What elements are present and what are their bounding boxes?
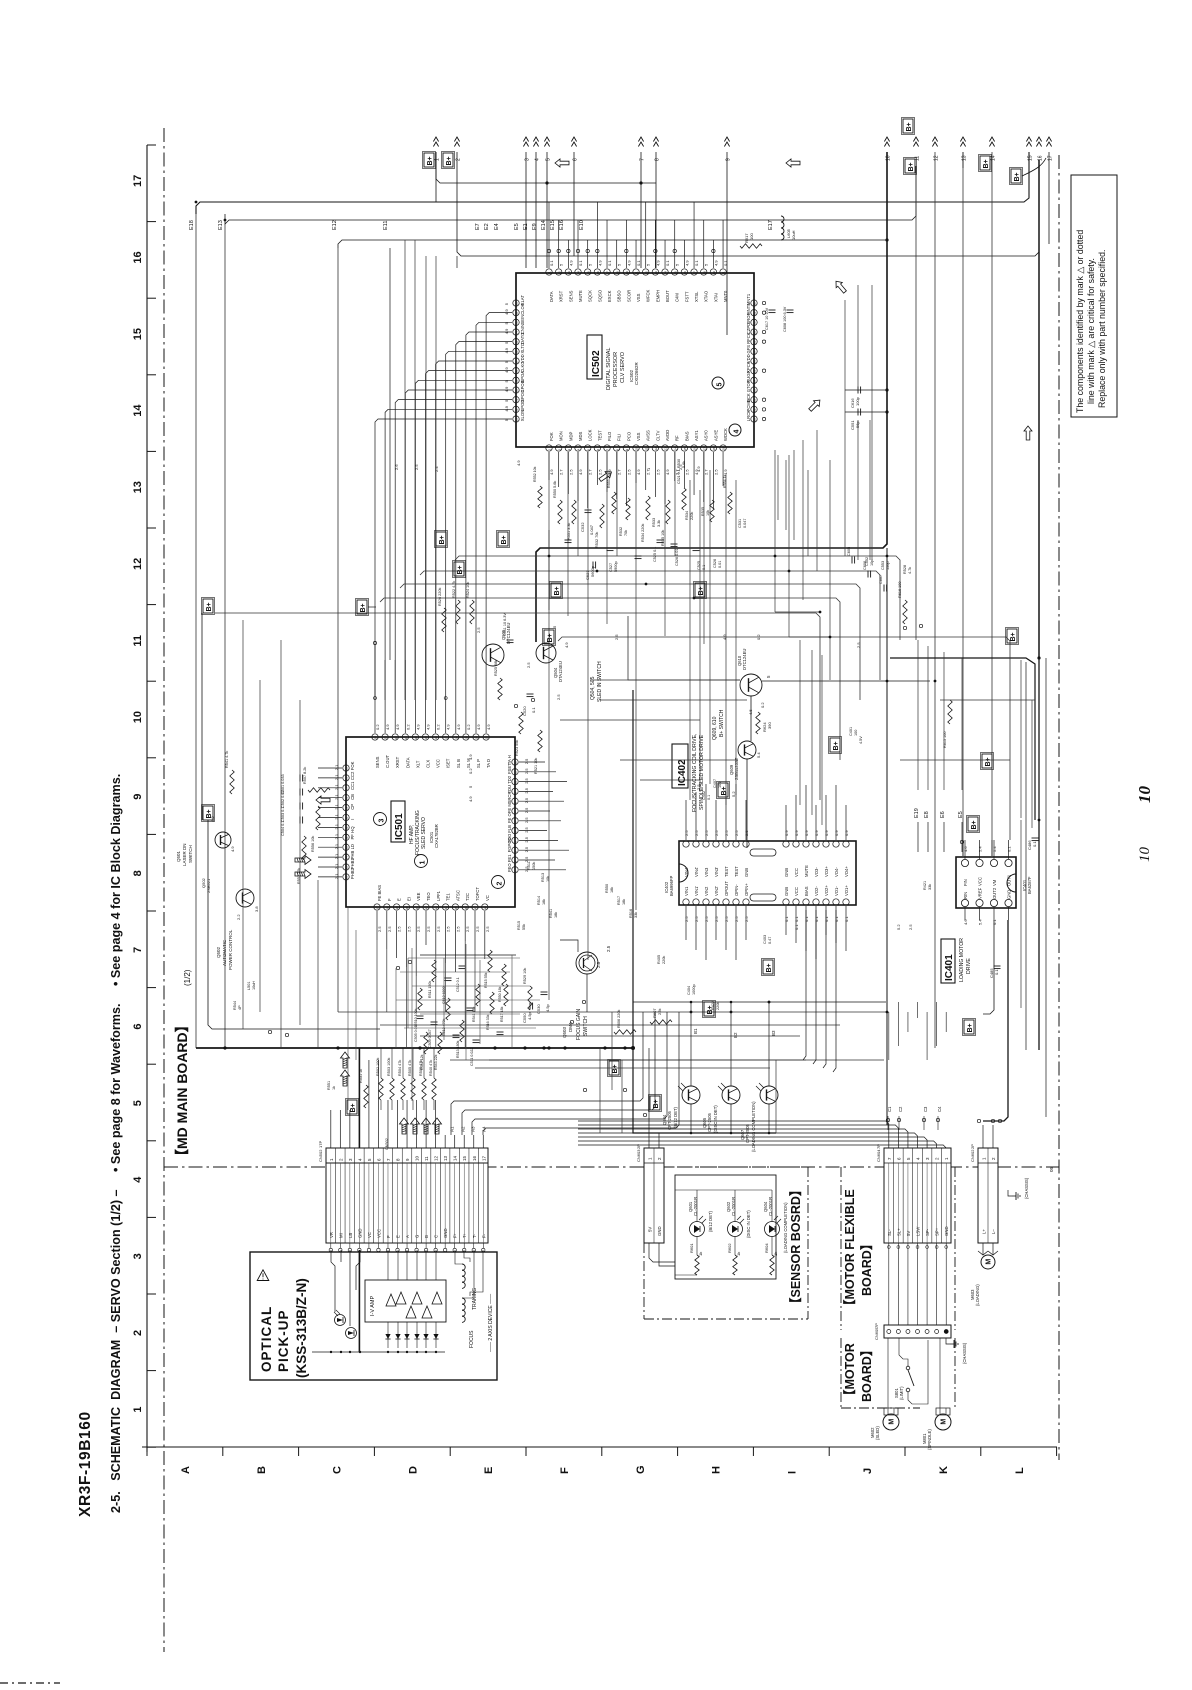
svg-text:16: 16 <box>596 271 600 275</box>
connector chevron 12 <box>932 137 937 142</box>
svg-text:36: 36 <box>345 876 349 880</box>
svg-text:0.047: 0.047 <box>743 518 747 528</box>
svg-text:T2C: T2C <box>465 893 470 901</box>
CN502 channel wires <box>330 1163 332 1243</box>
diode row <box>387 1322 389 1348</box>
svg-text:FE BIAS: FE BIAS <box>377 885 382 901</box>
capacitor extras focus <box>467 1007 474 1009</box>
wire pickup gnd bus <box>312 1351 445 1353</box>
svg-text:R516 33k: R516 33k <box>486 1014 490 1030</box>
svg-text:12: 12 <box>132 558 144 570</box>
svg-text:—— 2 AXIS DEVICE ——: —— 2 AXIS DEVICE —— <box>488 1294 494 1352</box>
transistor Q609 <box>738 741 756 759</box>
svg-text:ASY0: ASY0 <box>704 430 709 441</box>
svg-text:4.9: 4.9 <box>395 724 400 730</box>
bottom corner crop mark <box>0 1682 60 1684</box>
resistor R617 <box>740 244 762 248</box>
svg-text:0.1: 0.1 <box>707 795 711 800</box>
svg-text:23: 23 <box>753 389 757 393</box>
extra B plus markers <box>650 1096 660 1110</box>
wire E12 vertical <box>337 248 339 1012</box>
optical pickup box <box>250 1252 497 1380</box>
svg-text:R533: R533 <box>652 518 656 527</box>
svg-text:(DISC IN DET): (DISC IN DET) <box>746 1210 751 1238</box>
svg-text:14: 14 <box>453 1155 458 1161</box>
svg-text:2.1: 2.1 <box>334 823 339 829</box>
svg-text:E14: E14 <box>541 220 547 230</box>
svg-text:TE1: TE1 <box>446 893 451 901</box>
wire bus y183 <box>436 152 656 183</box>
svg-text:10: 10 <box>1137 847 1153 863</box>
svg-text:BOUT: BOUT <box>665 290 670 302</box>
svg-text:CPT-2505: CPT-2505 <box>667 1110 672 1130</box>
svg-text:2.5: 2.5 <box>524 807 529 813</box>
svg-text:38: 38 <box>385 906 389 910</box>
svg-text:PROCESSOR: PROCESSOR <box>613 352 619 387</box>
svg-text:SPOD: SPOD <box>520 400 525 412</box>
capacitor C551 <box>857 409 859 416</box>
svg-text:2.5: 2.5 <box>734 830 739 836</box>
svg-text:11: 11 <box>644 447 648 450</box>
svg-text:B+: B+ <box>457 565 464 574</box>
svg-text:B+: B+ <box>439 535 446 544</box>
LED Q601 <box>690 1222 705 1237</box>
wire chev13 vertical <box>962 152 964 856</box>
svg-text:SQCK: SQCK <box>588 290 593 302</box>
wire under IC501 to CN <box>355 930 357 1060</box>
svg-text:R616 100: R616 100 <box>898 582 902 598</box>
svg-text:2.5: 2.5 <box>455 926 460 932</box>
svg-text:(1/2): (1/2) <box>183 969 192 986</box>
svg-text:BA6287F: BA6287F <box>1027 876 1032 894</box>
svg-text:E11: E11 <box>383 221 389 230</box>
svg-text:R532 70k: R532 70k <box>595 532 599 548</box>
svg-text:27: 27 <box>753 350 757 354</box>
svg-text:VIN2': VIN2' <box>714 886 719 896</box>
svg-text:VREF: VREF <box>978 887 983 899</box>
svg-text:MON: MON <box>559 431 564 441</box>
svg-text:4.9: 4.9 <box>468 796 473 802</box>
svg-text:31: 31 <box>753 312 757 316</box>
svg-text:5: 5 <box>132 1100 144 1106</box>
svg-text:5: 5 <box>546 158 552 161</box>
resistor R523 <box>519 712 523 734</box>
svg-text:2.7: 2.7 <box>704 469 709 475</box>
svg-text:5.2: 5.2 <box>896 924 901 930</box>
svg-text:0.2: 0.2 <box>760 702 765 708</box>
svg-text:EI: EI <box>406 897 411 901</box>
svg-text:B+: B+ <box>983 159 990 168</box>
resistor R602 <box>733 1255 737 1275</box>
svg-text:5: 5 <box>717 383 724 387</box>
svg-text:0.1: 0.1 <box>723 260 728 266</box>
wire chev3 vertical <box>525 152 527 268</box>
svg-text:R513: R513 <box>541 873 545 882</box>
svg-text:PF H: PF H <box>350 830 355 840</box>
svg-text:Q609, 610: Q609, 610 <box>712 716 718 740</box>
B+ mid <box>357 600 367 614</box>
svg-text:2.5: 2.5 <box>626 469 631 475</box>
svg-text:1k: 1k <box>698 1252 703 1256</box>
svg-text:B+: B+ <box>554 586 561 595</box>
wire iv amp feeds <box>387 1250 389 1280</box>
wire left B rail 2 <box>368 606 376 608</box>
svg-text:(B/12 DET): (B/12 DET) <box>708 1210 713 1232</box>
capacitor C550 <box>529 1003 531 1010</box>
svg-text:R517: R517 <box>617 896 621 905</box>
svg-text:F: F <box>386 1235 391 1238</box>
resistor R529 <box>528 986 532 1010</box>
motor flex board outline <box>840 1167 842 1330</box>
svg-text:IC502: IC502 <box>591 350 602 377</box>
transistor Q610 B+ switch <box>740 674 762 696</box>
svg-text:2.5: 2.5 <box>568 469 573 475</box>
svg-text:2.1: 2.1 <box>334 873 339 879</box>
svg-text:39: 39 <box>395 906 399 910</box>
transistor Q504 <box>536 643 556 663</box>
connector CN602 <box>978 1148 998 1243</box>
svg-text:C511 10 6.3V: C511 10 6.3V <box>503 613 507 636</box>
wire cn604 down to cn605 <box>888 1243 890 1325</box>
svg-text:C531: C531 <box>738 519 742 528</box>
svg-text:2.5: 2.5 <box>475 926 480 932</box>
svg-text:C509 0.047: C509 0.047 <box>428 1029 432 1048</box>
svg-text:Q502: Q502 <box>216 946 221 958</box>
svg-text:R422: R422 <box>711 1001 715 1010</box>
svg-text:2.4: 2.4 <box>434 466 439 472</box>
svg-text:B+: B+ <box>985 757 992 766</box>
svg-text:B+: B+ <box>908 162 915 171</box>
svg-text:C4: C4 <box>937 1106 942 1112</box>
svg-text:B: B <box>424 1235 429 1238</box>
IC402 bottom stubs <box>685 906 687 940</box>
svg-text:0.9: 0.9 <box>804 830 809 836</box>
svg-text:56: 56 <box>515 350 519 354</box>
svg-text:4.7k: 4.7k <box>908 567 912 574</box>
svg-text:XROF: XROF <box>746 312 751 324</box>
svg-text:63: 63 <box>515 418 519 422</box>
svg-text:DTA124EU: DTA124EU <box>558 661 563 682</box>
svg-text:CXD2662R: CXD2662R <box>634 361 639 385</box>
svg-text:0.1: 0.1 <box>794 924 799 930</box>
op-amp triangles <box>386 1294 396 1306</box>
chassis gnd cn605 <box>946 1338 950 1344</box>
wire pickup left pins <box>331 1250 335 1312</box>
svg-text:VO2+: VO2+ <box>824 885 829 896</box>
svg-text:GND: GND <box>657 1226 662 1236</box>
motor M801 spindle <box>935 1414 951 1430</box>
svg-text:VM: VM <box>992 879 997 886</box>
wire horizontal jogs mid right <box>775 611 820 613</box>
svg-text:11: 11 <box>424 1156 429 1161</box>
B+ q609 <box>718 783 728 797</box>
capacitor C486 <box>1032 837 1039 839</box>
junction dots sprinkle <box>548 555 551 558</box>
svg-text:E18: E18 <box>189 220 195 230</box>
svg-text:G: G <box>635 1465 647 1474</box>
svg-text:16: 16 <box>454 736 458 740</box>
svg-text:E5: E5 <box>958 811 964 818</box>
transistor Q604 photo <box>682 1086 700 1104</box>
IC502 bottom pin stubs <box>548 452 550 480</box>
svg-text:R534 220k: R534 220k <box>641 524 645 542</box>
wire ic501 top to bus <box>404 240 406 700</box>
wire laser B+ rail <box>208 820 380 1029</box>
svg-text:2P: 2P <box>970 1144 975 1149</box>
svg-text:C527: C527 <box>609 563 613 572</box>
svg-text:VIN3: VIN3 <box>704 867 709 877</box>
svg-text:AVDD: AVDD <box>665 430 670 441</box>
svg-text:18: 18 <box>615 271 619 275</box>
hatched arrow pair upper <box>341 1052 350 1068</box>
svg-text:OPOUT: OPOUT <box>724 881 729 896</box>
svg-text:2.5: 2.5 <box>606 945 611 952</box>
svg-text:C4M: C4M <box>675 293 680 302</box>
svg-text:32: 32 <box>753 302 757 306</box>
photodiode D2 <box>346 1328 357 1339</box>
wire band y613 <box>215 613 820 800</box>
open circles testpoints <box>582 1000 585 1003</box>
svg-text:33k: 33k <box>928 884 932 890</box>
wire IC501 bottom extensions <box>376 940 378 1048</box>
svg-text:0.1: 0.1 <box>794 916 799 922</box>
wire CN502 gnd thick <box>358 1048 360 1148</box>
svg-text:C401: C401 <box>849 727 853 736</box>
svg-text:17: 17 <box>1048 155 1054 161</box>
svg-text:OPIN+: OPIN+ <box>744 883 749 896</box>
wire cn604 c-points <box>887 1116 889 1130</box>
svg-text:2.5: 2.5 <box>908 924 913 930</box>
svg-text:(LIMIT): (LIMIT) <box>899 1386 904 1400</box>
svg-text:2.1: 2.1 <box>334 764 339 770</box>
svg-text:VO1-: VO1- <box>834 886 839 896</box>
svg-text:C1: C1 <box>887 1106 892 1112</box>
svg-text:B+: B+ <box>612 1064 619 1073</box>
svg-text:VO2-: VO2- <box>814 886 819 896</box>
IC402 label box <box>672 744 688 788</box>
svg-text:R551: R551 <box>327 1081 331 1090</box>
IC502 marker 4 <box>729 424 741 436</box>
svg-text:0.1: 0.1 <box>694 260 699 266</box>
svg-text:LSW: LSW <box>916 1226 921 1236</box>
capacitor cluster left of IC501 <box>299 775 301 782</box>
svg-text:R606 220k: R606 220k <box>617 1010 621 1028</box>
capacitor C485 <box>994 965 1001 967</box>
svg-text:E8: E8 <box>924 811 930 818</box>
svg-text:IC402: IC402 <box>677 759 688 786</box>
svg-text:11: 11 <box>132 635 144 647</box>
svg-text:R511 150k: R511 150k <box>428 981 432 998</box>
svg-text:2.5: 2.5 <box>524 777 529 783</box>
svg-text:28: 28 <box>753 341 757 345</box>
svg-text:25: 25 <box>753 370 757 374</box>
svg-text:220k: 220k <box>662 956 666 964</box>
svg-text:VIN4': VIN4' <box>694 867 699 877</box>
svg-text:2SB1123ST: 2SB1123ST <box>734 757 739 780</box>
svg-text:RF: RF <box>675 435 680 441</box>
wire q610 collector <box>762 680 930 682</box>
svg-text:59: 59 <box>515 379 519 383</box>
svg-text:B+: B+ <box>1010 632 1017 641</box>
svg-text:4.9: 4.9 <box>516 460 521 466</box>
svg-text:5900p: 5900p <box>614 561 618 572</box>
svg-text:2.5: 2.5 <box>556 694 561 700</box>
svg-text:4.9: 4.9 <box>426 724 431 730</box>
svg-text:2.5: 2.5 <box>684 469 689 475</box>
svg-text:12: 12 <box>644 271 648 275</box>
svg-text:2.5: 2.5 <box>724 916 729 922</box>
svg-text:4.9: 4.9 <box>713 260 718 266</box>
svg-text:SBSO: SBSO <box>617 290 622 302</box>
IC502 right testpoints <box>762 301 765 304</box>
svg-text:FOK: FOK <box>350 761 355 770</box>
resistor R550 cluster <box>558 500 562 524</box>
svg-text:(LOADING): (LOADING) <box>975 1284 980 1306</box>
wire cn602 up <box>977 1119 980 1122</box>
resistor R534 <box>646 496 650 520</box>
capacitor C617 C608 <box>769 309 776 311</box>
resistor C505 <box>417 1015 424 1017</box>
svg-text:2.5: 2.5 <box>377 926 382 932</box>
capacitor C532 <box>585 509 592 511</box>
svg-text:2.5: 2.5 <box>704 830 709 836</box>
svg-text:15: 15 <box>465 736 469 740</box>
svg-text:18: 18 <box>712 447 716 451</box>
wire E19 bundle to IC401 <box>917 822 919 852</box>
svg-text:C504 0.1: C504 0.1 <box>281 821 285 836</box>
svg-text:2.5: 2.5 <box>744 916 749 922</box>
IC502 bottom pins <box>546 445 552 451</box>
svg-text:4.9: 4.9 <box>468 754 473 760</box>
motor M602 sled <box>883 1414 899 1430</box>
svg-text:C.OUT: C.OUT <box>385 755 390 768</box>
chassis gnd right <box>1008 1190 1012 1196</box>
svg-text:GND: GND <box>1007 890 1012 899</box>
safety note box <box>1071 175 1117 417</box>
wire sensor gnd rail <box>633 690 776 1133</box>
IC502 right pins <box>751 300 757 306</box>
svg-text:220k: 220k <box>716 1002 720 1010</box>
resistor R532 <box>600 504 604 528</box>
svg-text:(LOADING COMPLETION): (LOADING COMPLETION) <box>751 1101 756 1152</box>
svg-text:6: 6 <box>573 158 579 161</box>
svg-text:24: 24 <box>753 379 757 383</box>
svg-text:B+: B+ <box>833 741 840 750</box>
svg-text:E4: E4 <box>494 223 500 230</box>
svg-text:VO4+: VO4+ <box>844 866 849 877</box>
transistor Q501 laser dn switch <box>215 832 231 848</box>
svg-text:4.9: 4.9 <box>665 469 670 475</box>
wire cn604 L routes <box>578 1121 889 1148</box>
svg-text:DATO: DATO <box>520 332 525 344</box>
svg-text:15: 15 <box>683 447 687 451</box>
wire E18 vertical <box>195 214 197 1048</box>
svg-text:VCC: VCC <box>376 1229 381 1238</box>
svg-text:R405: R405 <box>657 955 661 964</box>
svg-text:12: 12 <box>514 761 518 765</box>
svg-text:C: C <box>434 1235 439 1238</box>
svg-text:IC401: IC401 <box>944 954 955 981</box>
resistor R515 <box>488 950 492 972</box>
open arrow below ic502 <box>598 469 614 484</box>
svg-text:2.1: 2.1 <box>334 863 339 869</box>
wire band y584 <box>400 584 860 700</box>
IC501 bottom stubs <box>376 911 378 940</box>
svg-text:L+: L+ <box>982 1229 987 1234</box>
svg-text:5.4: 5.4 <box>978 919 983 925</box>
svg-text:CN502: CN502 <box>385 1138 389 1150</box>
svg-text:SRCH: SRCH <box>507 792 512 804</box>
wire horizontals under IC502 <box>590 679 740 681</box>
svg-text:DATA: DATA <box>405 757 410 768</box>
svg-text:SP+: SP+ <box>935 1227 940 1236</box>
wire band y571 <box>420 571 880 680</box>
connector chevron 2 <box>454 137 459 142</box>
wire bus y1060 <box>450 1059 884 1061</box>
svg-text:14: 14 <box>132 404 144 417</box>
svg-text:4.9: 4.9 <box>568 260 573 266</box>
svg-text:R522 4.7k: R522 4.7k <box>452 581 456 598</box>
svg-text:5V: 5V <box>648 1227 653 1232</box>
svg-text:4.9: 4.9 <box>597 260 602 266</box>
svg-text:B2: B2 <box>733 1032 738 1038</box>
svg-text:45: 45 <box>454 906 458 910</box>
svg-text:MDP: MDP <box>568 431 573 441</box>
svg-text:R502 100k: R502 100k <box>376 1058 380 1076</box>
svg-text:1k: 1k <box>736 1252 741 1256</box>
svg-text:CLTV: CLTV <box>655 430 660 441</box>
svg-text:4.5p: 4.5p <box>527 1011 532 1020</box>
wire chev10 vertical thick elbow <box>536 152 887 642</box>
IC501 left stubs <box>318 767 342 769</box>
svg-text:GNB: GNB <box>784 887 789 896</box>
svg-text:5.4: 5.4 <box>756 752 761 758</box>
svg-text:25: 25 <box>345 767 349 771</box>
svg-text:4.9: 4.9 <box>655 260 660 266</box>
svg-text:55k: 55k <box>522 924 526 930</box>
wire right mid verticals <box>1020 820 1022 1008</box>
svg-text:2.1: 2.1 <box>334 774 339 780</box>
svg-text:R421: R421 <box>923 881 927 890</box>
svg-text:C617 10 10V: C617 10 10V <box>765 307 769 330</box>
svg-text:CLOK: CLOK <box>520 303 525 315</box>
svg-text:2-5. SCHEMATIC DIAGRAM – S: 2-5. SCHEMATIC DIAGRAM – SERVO Section (… <box>109 774 123 1513</box>
svg-text:2.5: 2.5 <box>524 768 529 774</box>
svg-text:29: 29 <box>345 806 349 810</box>
wire m801 <box>939 1338 941 1414</box>
svg-text:0.1: 0.1 <box>578 260 583 266</box>
svg-text:2.5: 2.5 <box>524 797 529 803</box>
svg-text:9: 9 <box>132 794 144 800</box>
svg-text:F: F <box>559 1467 571 1474</box>
svg-text:FEO: FEO <box>507 863 512 872</box>
svg-text:EMPH: EMPH <box>655 290 660 302</box>
svg-text:FGPCO: FGPCO <box>507 837 512 853</box>
svg-text:F: F <box>387 898 392 901</box>
svg-text:5.4: 5.4 <box>978 846 983 852</box>
svg-text:4.9: 4.9 <box>230 846 235 852</box>
IC502 top pins <box>546 269 552 275</box>
wire chev5 vertical <box>546 152 548 268</box>
svg-text:33k: 33k <box>634 912 638 918</box>
svg-text:TEST: TEST <box>724 866 729 877</box>
svg-text:C402: C402 <box>702 791 706 800</box>
svg-text:22: 22 <box>753 399 757 403</box>
svg-text:R535: R535 <box>701 507 705 516</box>
svg-text:43: 43 <box>434 906 438 910</box>
svg-text:R530: R530 <box>677 459 681 468</box>
svg-text:R553 22k: R553 22k <box>607 472 611 488</box>
